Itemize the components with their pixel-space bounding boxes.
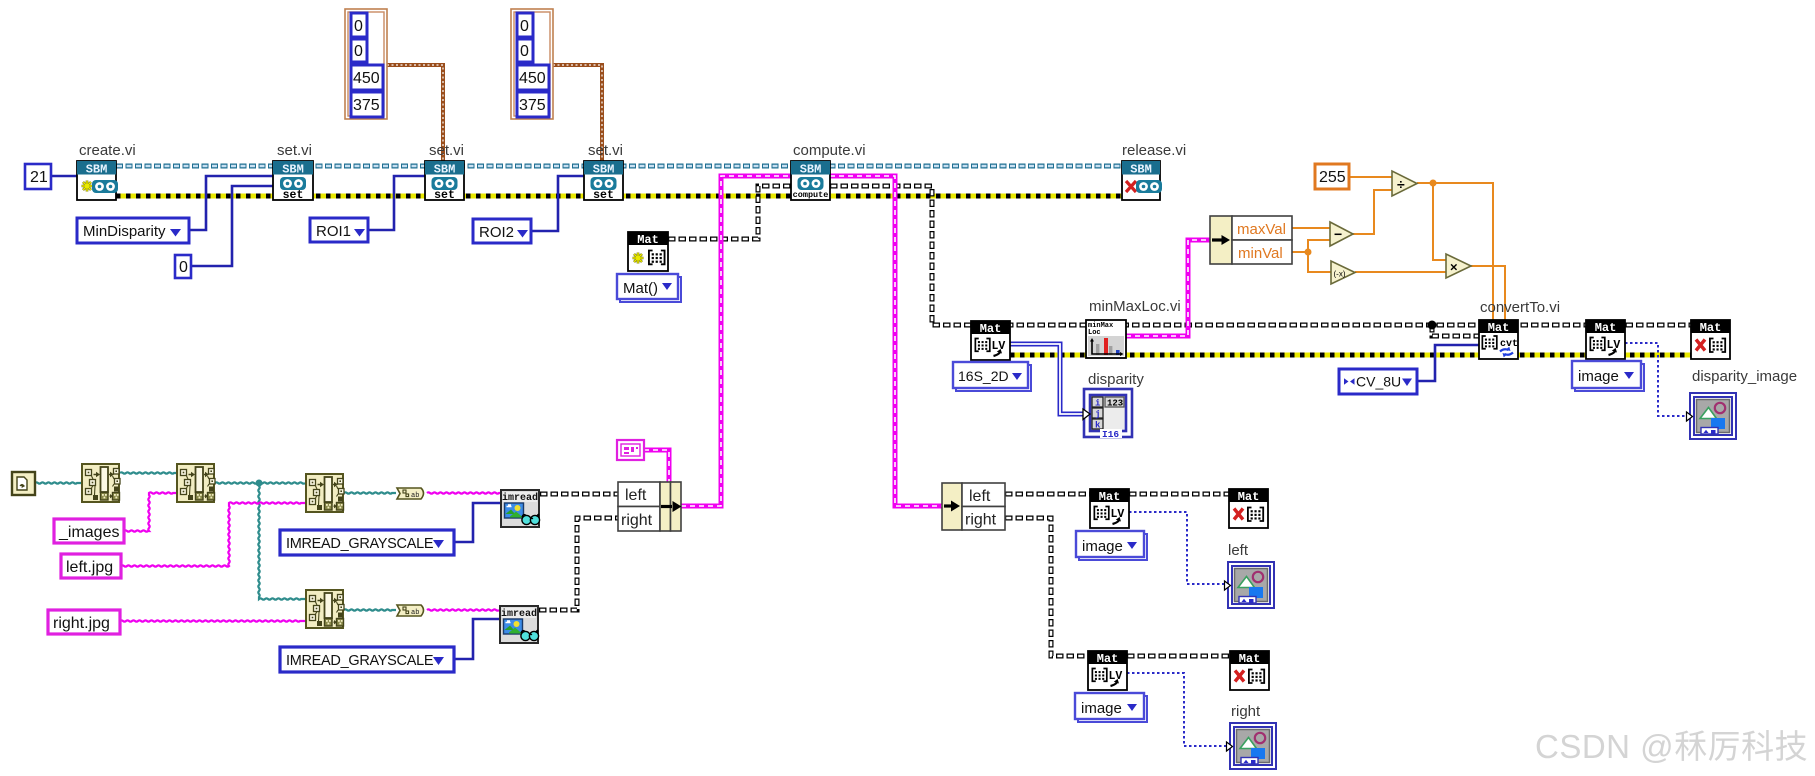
wire: MinDisparity to set.vi [189, 176, 273, 230]
wire: 2D array MatLV to disparity indicator [1010, 344, 1084, 414]
junction: path wire dot [256, 480, 263, 487]
svg-text:450: 450 [519, 70, 546, 87]
node Mat create constant [628, 232, 668, 271]
node compute.vi SBM [791, 161, 830, 200]
wire: minVal to subtract and negate [1292, 240, 1331, 272]
svg-text:create.vi: create.vi [79, 142, 136, 159]
wire: minMaxLoc out to unbundle maxVal minVal [1126, 240, 1210, 336]
cluster constant ROI2 values [511, 9, 553, 119]
dropdown MinDisparity [77, 218, 189, 243]
dropdown image 1 [1076, 531, 1147, 560]
svg-text:image: image [1578, 368, 1619, 385]
node set.vi 1 SBM [273, 161, 313, 202]
dropdown CV_8U [1339, 369, 1417, 394]
node MatLV 16S disparity [971, 321, 1010, 360]
node strip path [82, 464, 120, 502]
wire: string _images to build path 1 [124, 492, 176, 531]
wire: build path 2 to path-to-string 1 [344, 492, 396, 493]
wire: 255 to divide [1349, 176, 1392, 178]
multiply operator [1446, 254, 1471, 278]
svg-text:_images: _images [58, 524, 119, 541]
wire: Mat imread 2 to bundle right [539, 518, 618, 610]
string constant _images [54, 519, 124, 543]
svg-text:set.vi: set.vi [277, 142, 312, 159]
node set.vi 2 SBM [425, 161, 464, 202]
svg-text:set: set [593, 189, 614, 202]
svg-text:disparity_image: disparity_image [1692, 368, 1797, 385]
junction: minVal dot [1305, 249, 1312, 256]
svg-text:IMREAD_GRAYSCALE: IMREAD_GRAYSCALE [286, 536, 434, 552]
wire: image out MatLV 2 to right indicator [1127, 673, 1229, 746]
svg-text:j: j [1095, 410, 1100, 420]
svg-text:IMREAD_GRAYSCALE: IMREAD_GRAYSCALE [286, 653, 434, 669]
svg-text:convertTo.vi: convertTo.vi [1480, 299, 1560, 316]
wire: IMREAD_GRAYSCALE 2 to imread 2 [454, 619, 499, 659]
wire: MatLV 1 to Mat delete 1 [1129, 492, 1229, 497]
subtract operator [1330, 222, 1353, 246]
wire: cluster constant to bundle [644, 450, 669, 482]
wire: path-to-string 1 to imread 1 [427, 492, 500, 493]
svg-text:Mat: Mat [1488, 321, 1510, 335]
wire: negate out to multiply [1355, 271, 1446, 273]
svg-text:255: 255 [1319, 169, 1346, 186]
wire: cluster ROI1 values to set.vi [387, 65, 443, 161]
dropdown ROI1 [310, 218, 368, 242]
string constant right.jpg [48, 610, 120, 634]
wire: cluster ROI2 values to set.vi [553, 65, 602, 161]
svg-text:image: image [1082, 538, 1123, 555]
indicator right image [1227, 723, 1277, 769]
node imread 2 [500, 606, 539, 643]
svg-text:release.vi: release.vi [1122, 142, 1186, 159]
svg-text:left: left [625, 487, 647, 504]
svg-text:Mat: Mat [637, 233, 659, 247]
svg-text:set: set [434, 189, 455, 202]
svg-text:450: 450 [353, 70, 380, 87]
wire: strip path to build path 1 [120, 472, 176, 473]
svg-text:set.vi: set.vi [429, 142, 464, 159]
svg-text:set.vi: set.vi [588, 142, 623, 159]
svg-text:16S_2D: 16S_2D [958, 368, 1009, 384]
junction: divide out dot [1430, 180, 1437, 187]
wire: SBM class chain create.vi to release.vi [116, 164, 1122, 169]
svg-text:0: 0 [354, 18, 363, 35]
node Mat delete 2 [1230, 651, 1269, 690]
wire: CV_8U to convertTo.vi [1417, 345, 1479, 381]
constant error cluster [617, 440, 644, 460]
negate operator [1331, 261, 1355, 284]
wire: ROI2 to set.vi [531, 176, 584, 231]
svg-text:×: × [1450, 260, 1458, 275]
node MatLV 3 [1586, 320, 1625, 359]
wire: unbundle right to MatLV 2 [1005, 518, 1088, 656]
divide operator [1392, 171, 1417, 196]
wire: maxVal to subtract [1292, 227, 1330, 229]
node Mat delete 1 [1229, 489, 1268, 528]
svg-text:ROI2: ROI2 [479, 224, 514, 241]
dropdown IMREAD_GRAYSCALE 2 [280, 647, 454, 672]
indicator left image [1225, 562, 1275, 608]
svg-text:375: 375 [353, 97, 380, 114]
unbundle maxVal minVal [1210, 216, 1292, 264]
node unbundle left right [942, 483, 1005, 530]
svg-text:0: 0 [354, 43, 363, 60]
wire: error wire MatLV to Mat delete (bottom chain) [1010, 353, 1691, 358]
dropdown image 2 [1075, 693, 1147, 722]
svg-text:CV_8U: CV_8U [1356, 374, 1401, 390]
node MatLV 1 [1090, 489, 1129, 528]
wire: constant 21 to create.vi [51, 175, 77, 178]
wire: build path 1 out with branch to build path 2 and 3 [215, 482, 305, 599]
svg-text:SBM: SBM [86, 163, 108, 177]
wire: path-to-string 2 to imread 2 [427, 609, 499, 610]
constant 255 [1315, 164, 1349, 189]
wire: constant 0 to set.vi [191, 186, 273, 266]
svg-text:I16: I16 [1102, 429, 1119, 440]
dropdown Mat() [617, 274, 681, 302]
svg-text:left: left [1228, 542, 1249, 559]
svg-text:0: 0 [179, 259, 188, 276]
node path to string 2 [397, 605, 424, 617]
svg-text:right: right [1231, 703, 1261, 720]
svg-text:375: 375 [519, 97, 546, 114]
svg-text:left: left [969, 488, 991, 505]
svg-text:÷: ÷ [1397, 176, 1405, 192]
svg-text:i: i [1095, 399, 1101, 409]
svg-text:minMaxLoc.vi: minMaxLoc.vi [1089, 298, 1181, 315]
wire: image out MatLV 1 to left indicator [1129, 512, 1227, 584]
svg-text:maxVal: maxVal [1237, 221, 1286, 238]
svg-text:−: − [1334, 226, 1342, 242]
wire: Mat disparity compute.vi to MatLV minMaxLoc convertTo chain [830, 186, 1691, 325]
wire: Mat branch into convertTo second input [1432, 325, 1479, 336]
svg-text:SBM: SBM [1130, 163, 1152, 177]
svg-text:image: image [1081, 700, 1122, 717]
wire: multiply out to convertTo beta [1471, 266, 1505, 320]
wire: compute.vi cluster out to unbundle left right [830, 176, 942, 506]
constant current VI path [12, 472, 35, 495]
dropdown 16S_2D [953, 362, 1031, 391]
svg-text:21: 21 [30, 169, 48, 186]
node path to string 1 [397, 488, 424, 500]
wire: Mat imread 1 to bundle left [540, 492, 618, 497]
svg-text:compute: compute [793, 190, 829, 200]
node Mat delete 3 [1691, 320, 1730, 359]
svg-text:0: 0 [520, 18, 529, 35]
svg-text:0: 0 [520, 43, 529, 60]
node convertTo.vi Mat cvt [1479, 320, 1518, 359]
svg-text:Mat(): Mat() [623, 280, 658, 297]
wire: Mat constant to compute.vi [668, 186, 791, 239]
dropdown ROI2 [473, 219, 531, 243]
node minMaxLoc.vi [1086, 320, 1126, 358]
svg-text:123: 123 [1107, 399, 1123, 409]
svg-text:SBM: SBM [282, 163, 304, 177]
svg-text:CSDN @秝厉科技: CSDN @秝厉科技 [1535, 728, 1808, 765]
node bundle by name left right [618, 482, 682, 531]
wire: string left.jpg to build path 2 [121, 502, 305, 566]
svg-text:SBM: SBM [800, 163, 822, 177]
svg-text:ROI1: ROI1 [316, 223, 351, 240]
node release.vi SBM [1122, 161, 1162, 200]
svg-text:MinDisparity: MinDisparity [83, 223, 166, 240]
svg-text:set: set [283, 189, 304, 202]
wire: IMREAD_GRAYSCALE 1 to imread 1 [454, 503, 500, 542]
svg-text:SBM: SBM [593, 163, 615, 177]
svg-text:right.jpg: right.jpg [53, 615, 110, 632]
svg-text:compute.vi: compute.vi [793, 142, 866, 159]
wire: MatLV 2 to Mat delete 2 [1127, 654, 1230, 659]
svg-text:right: right [965, 512, 997, 529]
svg-text:left.jpg: left.jpg [66, 559, 113, 576]
node build path 1 [177, 464, 215, 502]
indicator disparity 2D array [1083, 389, 1132, 440]
node create.vi SBM [77, 161, 118, 200]
svg-text:(-x): (-x) [1334, 270, 1346, 279]
junction: Mat wire branch dot [1428, 321, 1437, 330]
svg-text:right: right [621, 512, 653, 529]
wire: current VI path to strip path [35, 482, 81, 483]
wire: image out MatLV 3 to disparity_image indicator [1625, 343, 1689, 416]
node set.vi 3 SBM [584, 161, 623, 202]
node build path 2 [306, 474, 344, 512]
wire: unbundle left to MatLV 1 [1005, 492, 1090, 497]
wire: ROI1 to set.vi [368, 176, 425, 230]
constant 21 [25, 164, 51, 189]
wire: divide out to multiply and convertTo alpha [1417, 183, 1493, 320]
dropdown IMREAD_GRAYSCALE 1 [280, 530, 454, 555]
node MatLV 2 [1088, 651, 1127, 690]
wire: bundle out to compute.vi [681, 176, 791, 506]
wire: build path 3 to path-to-string 2 [344, 609, 396, 610]
string constant left.jpg [61, 554, 121, 578]
wire: error wire create.vi to release.vi [116, 194, 1122, 199]
svg-text:disparity: disparity [1088, 371, 1144, 388]
wire: string right.jpg to build path 3 [120, 620, 305, 621]
node build path 3 [306, 590, 344, 628]
constant 0 [175, 255, 191, 278]
wire: subtract out to divide [1353, 190, 1392, 234]
svg-text:Loc: Loc [1088, 329, 1101, 337]
dropdown image 3 [1572, 361, 1644, 391]
indicator disparity_image [1687, 393, 1737, 439]
svg-text:minVal: minVal [1238, 245, 1283, 262]
node imread 1 [501, 490, 540, 527]
cluster constant ROI1 values [345, 9, 387, 119]
svg-text:SBM: SBM [434, 163, 456, 177]
